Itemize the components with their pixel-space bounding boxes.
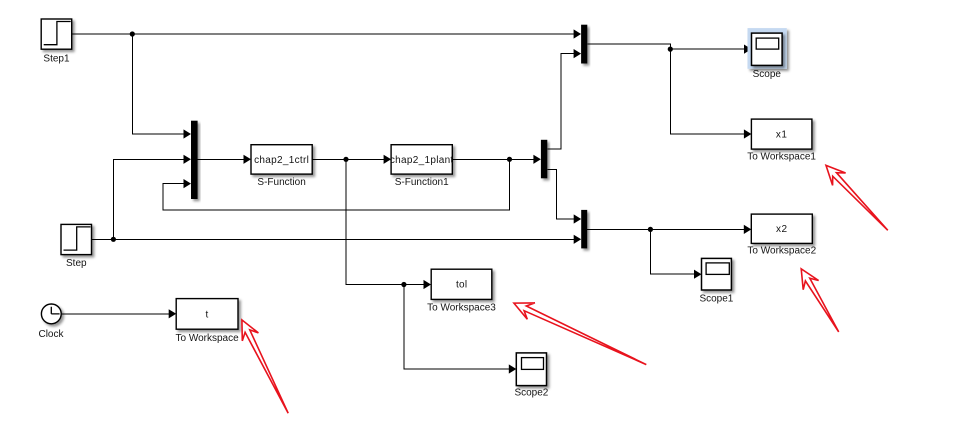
svg-text:Step: Step — [66, 258, 87, 269]
svg-text:Step1: Step1 — [43, 54, 70, 65]
svg-text:chap2_1plant: chap2_1plant — [390, 155, 454, 166]
svg-text:Scope: Scope — [753, 69, 782, 80]
svg-text:To Workspace1: To Workspace1 — [747, 151, 816, 162]
svg-text:S-Function1: S-Function1 — [395, 177, 449, 188]
svg-text:Scope1: Scope1 — [699, 294, 733, 305]
svg-text:t: t — [206, 309, 209, 320]
svg-text:Clock: Clock — [38, 329, 64, 340]
svg-text:To Workspace3: To Workspace3 — [427, 302, 496, 313]
svg-text:chap2_1ctrl: chap2_1ctrl — [254, 155, 309, 166]
svg-text:To Workspace: To Workspace — [176, 333, 240, 344]
svg-text:x2: x2 — [776, 224, 788, 235]
svg-text:x1: x1 — [776, 130, 788, 141]
svg-text:S-Function: S-Function — [257, 177, 305, 188]
svg-text:tol: tol — [456, 279, 467, 290]
svg-text:To Workspace2: To Workspace2 — [747, 246, 816, 257]
svg-text:Scope2: Scope2 — [514, 387, 548, 398]
